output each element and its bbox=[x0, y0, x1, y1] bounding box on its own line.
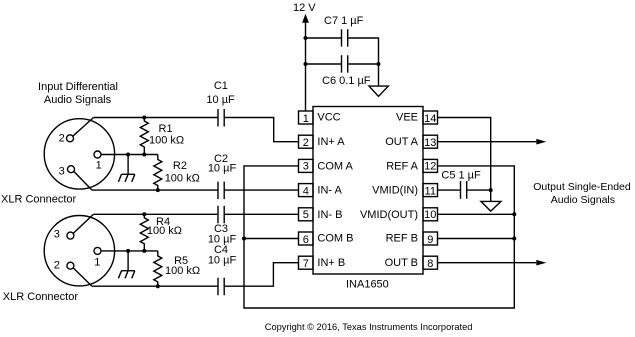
junction dots bbox=[142, 116, 146, 120]
resistor R1 bbox=[140, 118, 148, 155]
svg-text:VCC: VCC bbox=[317, 112, 340, 124]
chassis ground J2 bbox=[118, 251, 134, 278]
capacitor C4 bbox=[217, 278, 219, 296]
capacitor C6 bbox=[341, 55, 343, 72]
ground (triangle) right bbox=[481, 201, 501, 211]
capacitor C5 bbox=[460, 181, 462, 199]
svg-text:10 µF: 10 µF bbox=[208, 162, 237, 174]
svg-text:R2: R2 bbox=[173, 160, 187, 172]
svg-text:COM A: COM A bbox=[317, 161, 353, 173]
svg-text:7: 7 bbox=[303, 258, 309, 270]
svg-text:1: 1 bbox=[94, 256, 100, 268]
svg-text:Audio Signals: Audio Signals bbox=[551, 194, 615, 206]
svg-text:2: 2 bbox=[54, 260, 60, 272]
svg-text:Output Single-Ended: Output Single-Ended bbox=[533, 181, 631, 193]
wire C3 to pin5 bbox=[224, 213, 298, 215]
svg-text:REF B: REF B bbox=[386, 233, 418, 245]
pin 5 box bbox=[299, 208, 314, 221]
svg-text:C1: C1 bbox=[214, 80, 228, 92]
svg-text:OUT B: OUT B bbox=[385, 257, 418, 269]
capacitor C3 bbox=[217, 206, 219, 224]
resistor R5 bbox=[154, 251, 162, 286]
svg-text:3: 3 bbox=[59, 165, 65, 177]
svg-text:VMID(IN): VMID(IN) bbox=[372, 184, 418, 196]
pin 14 box bbox=[423, 111, 438, 124]
wire J1 pin2 to top bbox=[73, 118, 94, 137]
capacitor C7 bbox=[341, 29, 343, 47]
svg-text:1: 1 bbox=[96, 160, 102, 172]
wire J2 bottom row (C4 row) bbox=[92, 285, 218, 287]
IC U1 INA1650 body bbox=[313, 107, 423, 275]
svg-text:11: 11 bbox=[425, 185, 436, 197]
wire C6 branch bbox=[306, 63, 342, 65]
svg-text:100 kΩ: 100 kΩ bbox=[149, 134, 184, 146]
svg-text:10 µF: 10 µF bbox=[208, 255, 237, 267]
svg-text:IN- B: IN- B bbox=[317, 209, 342, 221]
resistor R2 bbox=[154, 155, 162, 191]
wire top input row bbox=[94, 117, 219, 119]
XLR connector J1 (upper) bbox=[44, 119, 114, 189]
svg-text:XLR Connector: XLR Connector bbox=[1, 193, 77, 205]
svg-text:8: 8 bbox=[427, 258, 433, 270]
power arrow 12V bbox=[302, 14, 309, 23]
wire COM B pin6 bbox=[244, 238, 299, 240]
pin 3 box bbox=[299, 159, 314, 172]
wire OUT B pin8 bbox=[438, 262, 537, 264]
svg-text:IN- A: IN- A bbox=[317, 184, 342, 196]
svg-text:INA1650: INA1650 bbox=[346, 279, 389, 291]
wire C5 right bbox=[467, 190, 491, 201]
svg-text:IN+ B: IN+ B bbox=[317, 257, 345, 269]
pin 7 box bbox=[299, 256, 314, 269]
svg-text:Audio Signals: Audio Signals bbox=[44, 94, 112, 106]
svg-text:10: 10 bbox=[424, 209, 436, 221]
wire VMID(OUT) pin10 bbox=[438, 213, 515, 215]
svg-text:6: 6 bbox=[303, 234, 309, 246]
svg-text:Input Differential: Input Differential bbox=[38, 81, 118, 93]
wire C7 branch bbox=[306, 37, 342, 39]
svg-text:XLR Connector: XLR Connector bbox=[3, 291, 79, 303]
svg-text:10 µF: 10 µF bbox=[206, 94, 235, 106]
svg-text:R1: R1 bbox=[159, 123, 173, 135]
pin 11 box bbox=[423, 184, 438, 197]
pin 6 box bbox=[299, 232, 314, 245]
wire C1 to pin2 bbox=[224, 118, 298, 142]
svg-text:VMID(OUT): VMID(OUT) bbox=[360, 209, 418, 221]
capacitor C2 bbox=[217, 182, 219, 200]
svg-text:1: 1 bbox=[303, 113, 309, 125]
svg-text:C6 0.1 µF: C6 0.1 µF bbox=[322, 75, 371, 87]
svg-text:4: 4 bbox=[303, 185, 309, 197]
wire OUT A pin13 bbox=[438, 141, 537, 143]
svg-text:100 kΩ: 100 kΩ bbox=[147, 225, 182, 237]
svg-text:C5 1 µF: C5 1 µF bbox=[441, 170, 481, 182]
svg-text:VEE: VEE bbox=[396, 112, 418, 124]
svg-text:13: 13 bbox=[424, 137, 436, 149]
svg-text:12: 12 bbox=[424, 161, 436, 173]
svg-text:3: 3 bbox=[54, 229, 60, 241]
resistor R4 bbox=[140, 214, 148, 251]
wire C2 to pin4 bbox=[224, 189, 298, 191]
wire J1 pin3 to bottom bbox=[74, 171, 92, 190]
wire J2 top row (C3 row) bbox=[94, 213, 219, 215]
wire J2 pin1 bbox=[101, 250, 158, 252]
svg-text:12 V: 12 V bbox=[293, 2, 316, 14]
wire J2 pin2 to bottom bbox=[73, 268, 92, 286]
wire J2 pin3 to top bbox=[73, 214, 93, 233]
wire VEE pin14 bbox=[438, 118, 491, 191]
wire lower input row (C2 row) bbox=[92, 189, 218, 191]
wire 12V rail bbox=[305, 20, 307, 111]
pin 12 box bbox=[423, 159, 438, 172]
svg-text:Copyright © 2016, Texas Instru: Copyright © 2016, Texas Instruments Inco… bbox=[265, 322, 473, 332]
arrow OUT A bbox=[536, 139, 546, 145]
wire C5 branch pin11 bbox=[438, 189, 461, 191]
svg-text:100 kΩ: 100 kΩ bbox=[165, 265, 200, 277]
pin 8 box bbox=[423, 256, 438, 269]
pin 2 box bbox=[299, 135, 314, 148]
svg-text:100 kΩ: 100 kΩ bbox=[165, 173, 200, 185]
pin 10 box bbox=[423, 208, 438, 221]
arrow OUT B bbox=[536, 260, 546, 266]
svg-text:REF A: REF A bbox=[386, 161, 418, 173]
pin 13 box bbox=[423, 135, 438, 148]
wire COM A pin3 bbox=[244, 166, 514, 308]
svg-text:2: 2 bbox=[303, 137, 309, 149]
pin 1 box bbox=[299, 111, 314, 124]
XLR connector J2 (lower) bbox=[44, 216, 114, 286]
wire REF B pin9 bbox=[438, 238, 515, 240]
capacitor C1 bbox=[217, 109, 219, 127]
svg-text:3: 3 bbox=[303, 161, 309, 173]
svg-text:COM B: COM B bbox=[317, 233, 353, 245]
pin 9 box bbox=[423, 232, 438, 245]
svg-text:14: 14 bbox=[424, 113, 436, 125]
pin 4 box bbox=[299, 184, 314, 197]
svg-text:IN+ A: IN+ A bbox=[317, 136, 345, 148]
wire J1 pin1 bbox=[101, 154, 158, 156]
ground (triangle) top bbox=[369, 86, 388, 96]
svg-text:5: 5 bbox=[303, 209, 309, 221]
svg-text:9: 9 bbox=[427, 234, 433, 246]
wire C6 right to ground bbox=[348, 64, 379, 86]
svg-text:OUT A: OUT A bbox=[385, 136, 418, 148]
wire C4 to pin7 bbox=[224, 263, 298, 287]
svg-text:2: 2 bbox=[59, 133, 65, 145]
chassis ground J1 bbox=[118, 155, 134, 182]
svg-text:C7 1 µF: C7 1 µF bbox=[324, 15, 364, 27]
wire C7 right bbox=[348, 38, 379, 64]
